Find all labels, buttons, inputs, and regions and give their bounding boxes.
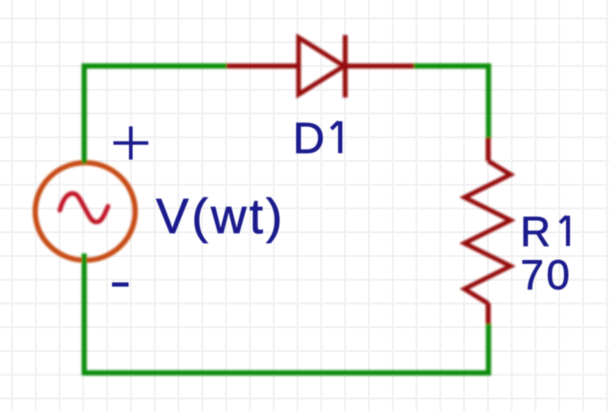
svg-text:70: 70 xyxy=(521,251,573,298)
svg-text:D: D xyxy=(293,114,325,163)
svg-text:V(wt): V(wt) xyxy=(156,190,285,244)
svg-text:R: R xyxy=(520,208,550,255)
